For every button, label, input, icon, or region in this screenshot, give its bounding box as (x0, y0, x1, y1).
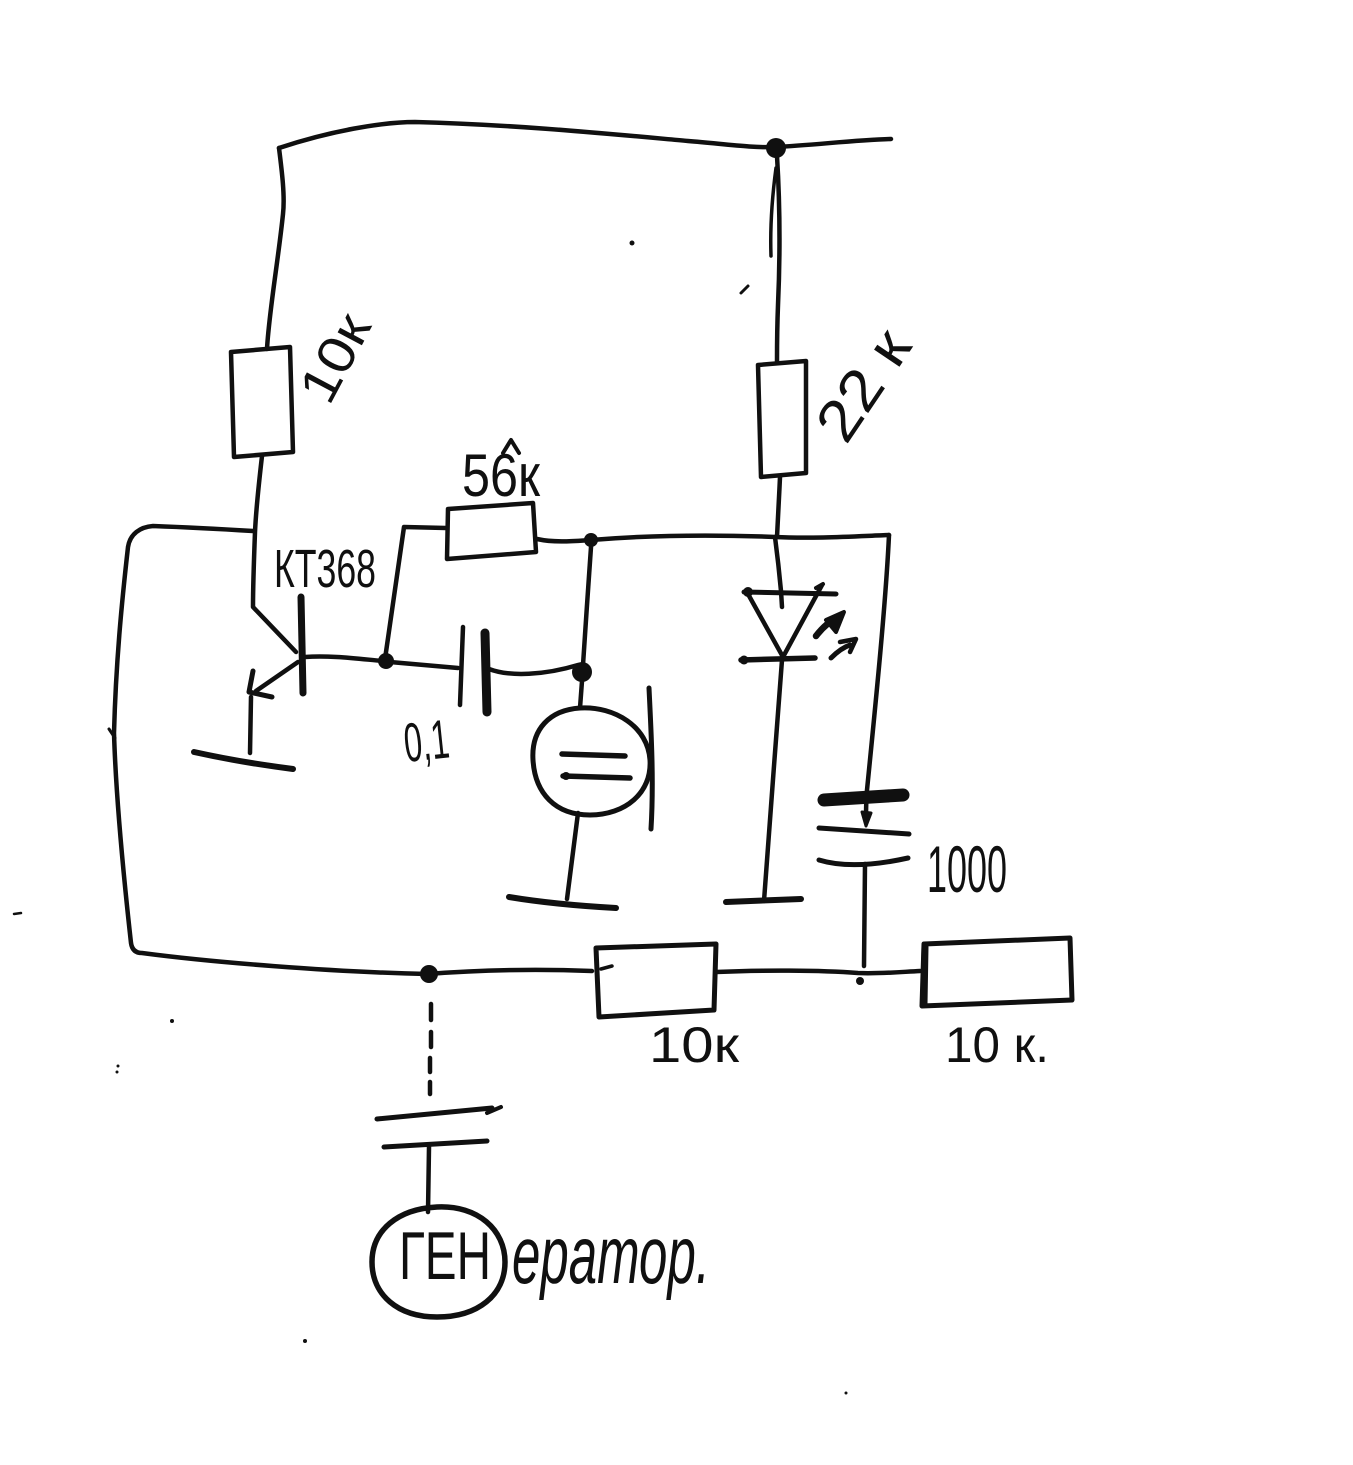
capacitor C3 top plate (377, 1108, 492, 1119)
speck: dust marks (14, 913, 21, 914)
LED VD1 light arrow 1 (816, 618, 837, 636)
wire: C1 right plate to cap output node (489, 665, 578, 674)
wire: emitter down lead (250, 697, 251, 753)
node: generator tap junction dot (420, 965, 438, 983)
svg-text:0,1: 0,1 (401, 708, 452, 774)
crystal BQ1 circle body (533, 708, 650, 815)
wire: mid rail down to LED (775, 537, 782, 607)
ground: crystal ground bar (509, 897, 616, 908)
svg-text:ГЕН: ГЕН (399, 1218, 491, 1294)
transistor Q1 emitter arrowhead (249, 671, 272, 697)
LED VD1 top bar (744, 592, 836, 594)
speck: dash left of 22K (741, 286, 748, 293)
LED VD1 triangle (748, 585, 822, 657)
ground: LED ground bar (726, 899, 801, 902)
wire: LED cathode down (764, 660, 782, 901)
generator G1 circle (372, 1207, 505, 1317)
wire: mid horizontal rail from 56K to right corner (537, 535, 889, 541)
speck: tick inside R4 box (601, 966, 612, 969)
ground: emitter ground bar (194, 752, 293, 769)
svg-text:КТ368: КТ368 (274, 539, 376, 599)
speck: tick on left enclosure edge (109, 729, 115, 738)
svg-text:10к: 10к (288, 304, 383, 413)
wire: vertical from mid rail to cap output node (583, 547, 591, 665)
wire: left enclosure (feedback loop) (114, 526, 428, 974)
wire: left drop from top rail to R1 (267, 148, 284, 349)
svg-text:10 к.: 10 к. (945, 1017, 1049, 1073)
wire: base lead to node (305, 656, 383, 661)
node: junction dot at 56K right / divider (584, 533, 598, 547)
wire: between R4 and R5 (716, 971, 920, 974)
crystal BQ1 inner plate 2 (563, 776, 630, 778)
LED VD1 light arrow 2 (831, 645, 850, 658)
svg-text:22 к: 22 к (803, 317, 924, 453)
capacitor C2 plate 3 (819, 858, 908, 865)
crystal BQ1 inner plate 1 (562, 754, 625, 756)
wire: node to coupling cap C1 (390, 662, 458, 668)
wire: R2 bottom to mid rail (777, 477, 780, 537)
transistor Q1 emitter diagonal (256, 662, 298, 691)
svg-text:1000: 1000 (927, 832, 1007, 906)
speck: dot above 56K area (630, 241, 635, 246)
crystal BQ1 bottom lead (567, 813, 578, 899)
capacitor C1 left plate (460, 627, 463, 705)
wire: bottom ground rail (428, 970, 592, 974)
transistor Q1 KT368 collector diagonal (253, 607, 296, 652)
wire: dashed line to generator (430, 1004, 431, 1094)
capacitor C2 plate 2 (819, 828, 909, 834)
wire: second stroke on right drop (retrace) (771, 168, 776, 256)
capacitor C2 thick top stroke (824, 795, 903, 800)
resistor R1 10K body (231, 347, 293, 457)
node: base node junction dot (378, 653, 394, 669)
crystal BQ1 right electrode bar (649, 688, 652, 829)
node: small dot at C2 tap (856, 977, 864, 985)
wire: top supply rail (279, 122, 891, 148)
resistor R5 10k body (922, 938, 1072, 1006)
node: V+ junction dot (766, 138, 786, 158)
capacitor C3 bottom plate (384, 1141, 487, 1147)
resistor R4 10k body (596, 944, 716, 1017)
capacitor C3 tick at right end (487, 1107, 501, 1113)
LED VD1 cathode bar (741, 658, 815, 660)
label: caret above 6 (503, 440, 519, 453)
crystal BQ1 top lead (580, 681, 582, 708)
wire: C3 to generator (428, 1147, 429, 1212)
transistor Q1 base bar (301, 597, 303, 693)
wire: right branch down to C2 (866, 535, 889, 822)
resistor R2 22K body (758, 361, 806, 477)
svg-text:10к: 10к (649, 1017, 740, 1073)
capacitor C1 right plate (485, 633, 487, 712)
resistor R3 56K body (447, 503, 536, 559)
wire: C2 bottom lead (864, 864, 865, 966)
wire: R1 bottom to transistor collector (253, 456, 262, 606)
svg-text:ератор.: ератор. (512, 1210, 710, 1301)
wire: left lead of R3 (385, 527, 446, 659)
wire: right drop from V+ dot to R2 (777, 156, 779, 361)
node: junction dot cap output (572, 662, 592, 682)
